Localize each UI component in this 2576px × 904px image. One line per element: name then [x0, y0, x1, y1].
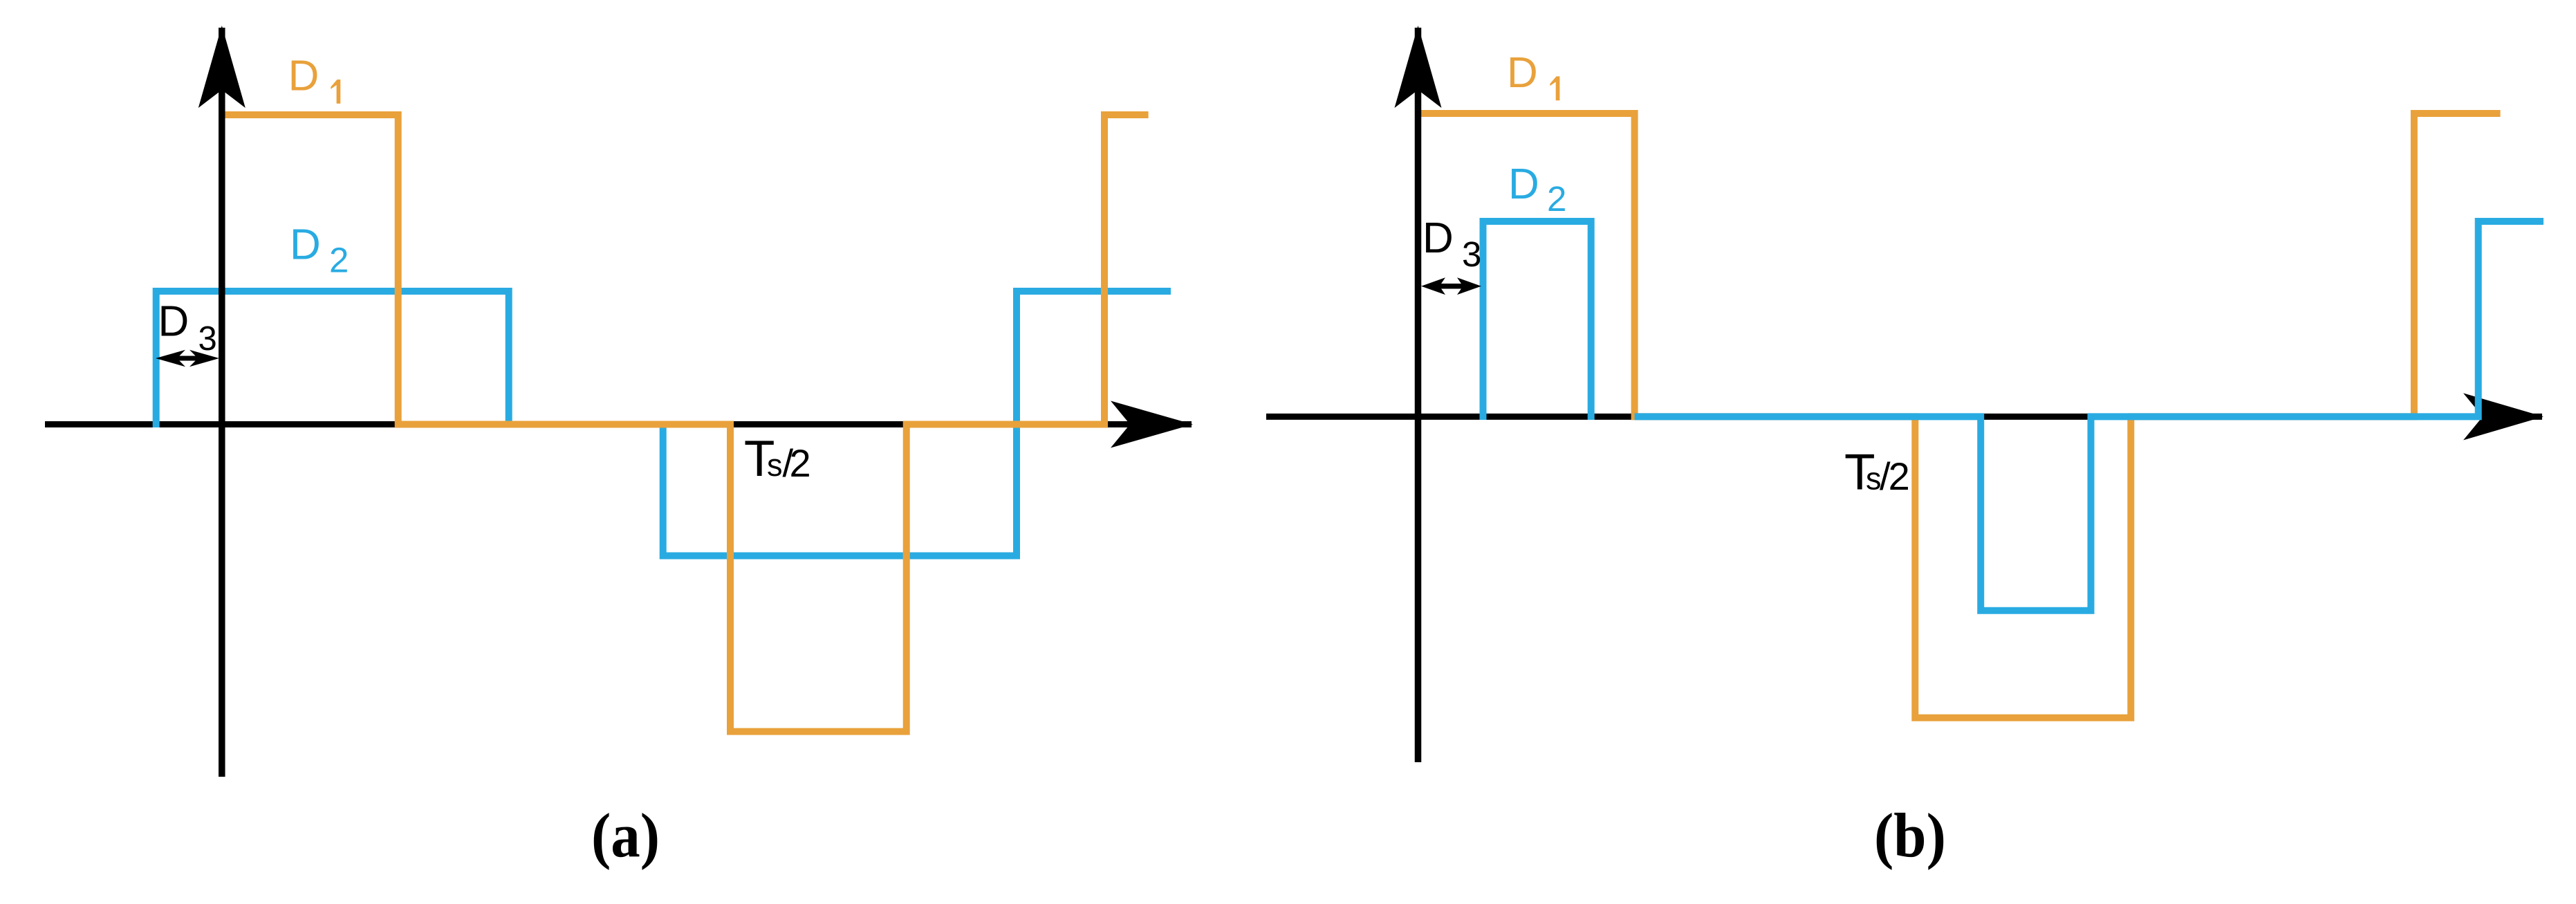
- svg-text:D: D: [288, 53, 319, 100]
- label D1 (a): [288, 53, 341, 104]
- label D2 (b): [1508, 160, 1566, 219]
- svg-text:s: s: [767, 448, 783, 483]
- svg-text:(b): (b): [1874, 802, 1946, 871]
- D3 dimension arrow (b): [1421, 277, 1481, 295]
- waveform D2 (a) blue: [156, 291, 1171, 556]
- x-axis (b): [1266, 393, 2543, 440]
- label D2 (a): [290, 221, 349, 279]
- label Ts/2 (b): [1844, 444, 1910, 500]
- svg-text:D: D: [290, 221, 321, 268]
- y-axis (a): [198, 26, 245, 777]
- x-axis (a): [45, 401, 1193, 448]
- svg-text:2: 2: [790, 441, 811, 485]
- label D1 (b): [1507, 49, 1559, 100]
- waveform D2 (b) blue : positive pulse: [1483, 221, 1591, 420]
- waveform D1 (a) orange: [222, 115, 1149, 732]
- waveform D2 (b) blue : zero and negative segments: [1635, 221, 2543, 611]
- label Ts/2 (a): [744, 431, 811, 487]
- D3 dimension arrow (a): [156, 350, 219, 367]
- svg-text:D: D: [158, 298, 189, 346]
- svg-text:D: D: [1507, 49, 1538, 97]
- svg-text:2: 2: [1547, 179, 1566, 219]
- label D3 (b): [1423, 214, 1481, 274]
- svg-text:3: 3: [198, 320, 217, 358]
- svg-text:D: D: [1423, 214, 1454, 262]
- y-axis (b): [1395, 26, 1442, 762]
- svg-text:(a): (a): [591, 802, 660, 871]
- svg-text:3: 3: [1462, 234, 1481, 274]
- svg-text:D: D: [1508, 160, 1539, 208]
- label D3 (a): [158, 298, 217, 358]
- svg-text:2: 2: [329, 241, 349, 280]
- svg-text:2: 2: [1889, 454, 1910, 498]
- waveform D1 (b) orange: [1418, 113, 2501, 718]
